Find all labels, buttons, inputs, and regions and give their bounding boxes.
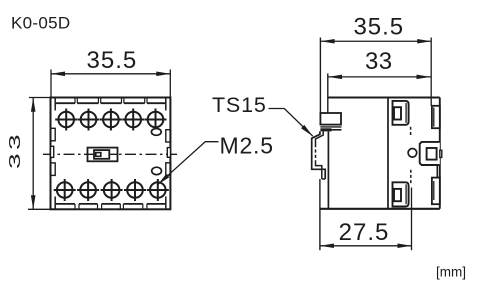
TS15 rail outer profile <box>312 131 326 179</box>
hidden line dashes bottom <box>410 170 412 185</box>
right face slot A <box>432 106 440 128</box>
middle terminal block C <box>420 142 440 165</box>
right edge slots <box>166 130 171 142</box>
screw terminal circles top row <box>55 109 166 131</box>
dim 27.5 extension right <box>411 188 413 251</box>
face line between C and D <box>436 165 438 178</box>
svg-text:M2.5: M2.5 <box>220 133 274 159</box>
dim 33 arrows (side) <box>328 75 342 80</box>
screw terminal circles bottom row <box>54 179 169 201</box>
dim 35.5 line (front) <box>51 73 170 75</box>
dim 35.5 line (side) <box>321 40 432 42</box>
body top edge <box>328 97 440 99</box>
top screw terminal (side) <box>393 101 409 125</box>
M2.5 leader <box>158 142 218 185</box>
clip top edge line <box>332 129 342 131</box>
hidden line dashes top <box>410 127 412 136</box>
svg-text:27.5: 27.5 <box>339 219 390 246</box>
dim 33 top arrow <box>31 98 36 112</box>
dim 33 line (front) <box>32 98 34 209</box>
svg-text:TS15: TS15 <box>212 93 267 117</box>
small oval top <box>151 129 161 136</box>
dim 33 bottom arrow <box>31 195 36 209</box>
body right edge <box>439 98 441 209</box>
extension line right <box>169 70 171 98</box>
internal divider <box>387 98 389 209</box>
center latch feature <box>88 148 118 162</box>
rail top flange (filled) <box>320 128 331 131</box>
svg-text:35.5: 35.5 <box>87 47 138 74</box>
body left face lower <box>327 132 329 209</box>
bottom screw terminal (side) <box>393 182 409 206</box>
right face slot D <box>432 178 440 205</box>
svg-text:K0-05D: K0-05D <box>11 14 70 33</box>
claw outer edge + 27.5 extension <box>319 179 321 250</box>
dim 27.5 line <box>320 245 412 247</box>
extension line left <box>50 70 52 98</box>
dim 27.5 arrows <box>320 244 334 249</box>
dim 33 line (side) <box>328 76 430 78</box>
svg-text:33: 33 <box>6 131 23 169</box>
side circle <box>408 149 417 158</box>
svg-text:[mm]: [mm] <box>436 265 466 280</box>
bottom vent slots <box>55 203 166 205</box>
claw top line <box>320 126 341 128</box>
left edge slots <box>51 128 56 141</box>
svg-text:35.5: 35.5 <box>353 13 404 40</box>
M2.5 leader arrowhead <box>158 174 169 184</box>
extension/spring line left <box>319 38 321 114</box>
dim 35.5 arrows (side) <box>321 39 335 44</box>
TS15 leader arrowhead <box>301 125 313 136</box>
extension line right (shared) <box>430 38 432 107</box>
TS15 rail inner profile <box>316 131 324 144</box>
top vent slots <box>55 102 166 104</box>
TS15 leader <box>269 109 313 137</box>
extension line bottom <box>28 208 51 210</box>
left face extension <box>327 73 329 113</box>
body bottom edge <box>320 208 440 210</box>
corner lips <box>55 98 166 210</box>
nib on face <box>440 150 442 157</box>
dim 35.5 right arrow <box>156 72 170 77</box>
centerline (front) <box>43 153 178 155</box>
rail bottom cap <box>322 178 325 180</box>
svg-text:33: 33 <box>365 48 393 75</box>
extension line top <box>29 97 51 99</box>
body outline (front) <box>51 98 171 210</box>
small oval bottom <box>152 167 162 174</box>
DIN latch <box>320 113 341 125</box>
dim 35.5 left arrow <box>51 72 65 77</box>
